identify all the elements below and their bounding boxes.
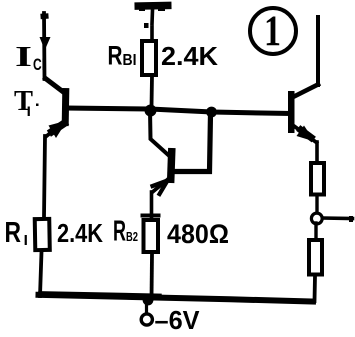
transistor T2 (right) — [288, 85, 318, 143]
wire: RE2 to bottom bus — [313, 276, 317, 301]
wire: T1 emitter down to R1 — [44, 136, 45, 217]
transistor T1 — [46, 79, 70, 139]
svg-text:–6V: –6V — [155, 305, 201, 335]
svg-text:l: l — [24, 232, 29, 248]
label T1 — [14, 86, 33, 119]
resistor R1 — [35, 219, 50, 250]
svg-text:I: I — [15, 42, 32, 73]
wire: T2 collector up — [316, 17, 320, 85]
svg-text:B2: B2 — [126, 229, 138, 244]
resistor RB2 top tick — [143, 214, 159, 218]
svg-text:2.4K: 2.4K — [57, 220, 103, 248]
resistor RE1 — [311, 163, 324, 195]
wire: bottom bus — [39, 295, 314, 302]
wire: terminal to RE2 — [314, 223, 317, 239]
wire: RB2 to bottom bus — [150, 254, 154, 299]
transistor TB (diode-connected) — [150, 110, 211, 194]
svg-text:480Ω: 480Ω — [167, 219, 229, 249]
wire: RE1 to output terminal — [315, 196, 318, 214]
wire: RB1 to bus — [150, 76, 154, 107]
resistor RB1 — [142, 41, 156, 75]
terminal -6V — [141, 314, 152, 325]
wire end nub (top of ICl lead) — [40, 13, 48, 19]
svg-text:BI: BI — [123, 52, 137, 69]
label R1 — [5, 217, 29, 249]
wire: horizontal base bus — [66, 108, 289, 114]
wire: TB emitter to RB2 — [150, 192, 154, 220]
label RB1 — [108, 41, 137, 71]
node: junction at RB1/bus — [145, 105, 157, 117]
callout circle 1 — [250, 8, 296, 55]
svg-text:1: 1 — [264, 8, 281, 55]
supply rail bar — [134, 2, 171, 11]
wire: rail to RB1 — [144, 10, 153, 40]
svg-text:l: l — [27, 104, 32, 119]
wire: output lead right — [323, 216, 353, 220]
wire: junction to -6V terminal — [145, 303, 148, 315]
svg-text:R: R — [5, 217, 22, 249]
svg-text:2.4K: 2.4K — [161, 41, 218, 71]
stray speck near T1 — [36, 104, 39, 107]
terminal (output tap) — [311, 213, 322, 224]
node: junction at -6V — [143, 295, 154, 306]
arrow ICl (current arrow) — [40, 37, 51, 50]
label ICl — [15, 42, 45, 74]
label RB2 — [113, 216, 138, 248]
svg-text:R: R — [108, 41, 123, 71]
wire: R1 to bottom bus — [40, 252, 42, 296]
node: junction at bus/diode branch — [206, 107, 217, 118]
svg-text:CI: CI — [33, 55, 45, 74]
svg-text:R: R — [113, 216, 126, 248]
wire: T2 emitter to RE1 — [315, 142, 319, 162]
resistor RB2 — [144, 220, 159, 252]
wire: T1 collector up — [42, 13, 46, 79]
resistor RE2 — [309, 240, 322, 275]
